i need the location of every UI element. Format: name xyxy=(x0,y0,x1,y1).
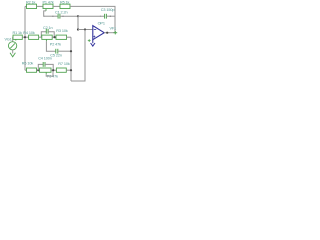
wire R4 to P2 xyxy=(39,36,42,38)
resistor R4 xyxy=(29,35,39,39)
node junction C4 branch left xyxy=(37,69,39,71)
svg-text:OP1: OP1 xyxy=(98,22,105,26)
resistor R1 xyxy=(13,35,22,39)
svg-text:R6 10k: R6 10k xyxy=(22,62,34,66)
wire R3 to right vertical xyxy=(67,36,72,38)
wire P2 wiper down to C5 row xyxy=(46,41,55,51)
wire P1 wiper jog down to C1 row xyxy=(44,11,46,16)
svg-text:R7 10k: R7 10k xyxy=(58,62,70,66)
wire VG1 to R1 xyxy=(12,37,15,42)
node junction C2/P2/R3 xyxy=(54,36,56,38)
wire C4 branch right xyxy=(45,64,53,70)
wire P2 to R3 xyxy=(52,36,56,38)
potentiometer P1 xyxy=(43,4,53,11)
wire to op-amp inverting input xyxy=(78,29,93,31)
resistor R7 xyxy=(56,68,66,72)
wire P3 to R7 xyxy=(51,69,56,71)
potentiometer P2 xyxy=(42,35,52,41)
wire input-node vertical bus xyxy=(24,6,26,70)
wire top row left stub xyxy=(25,5,27,7)
svg-text:R1 1k: R1 1k xyxy=(13,31,23,35)
node junction inverting input xyxy=(77,28,79,30)
wire R6 to P3 xyxy=(37,69,40,71)
wire R7 to right vertical xyxy=(66,69,71,71)
wire C5 to right vertical xyxy=(58,50,71,52)
resistor R6 xyxy=(27,68,37,72)
resistor R2 xyxy=(27,4,37,8)
wire C2 branch left xyxy=(41,32,46,38)
svg-text:C3 150p: C3 150p xyxy=(101,8,115,12)
op-amp OP1 xyxy=(88,26,104,42)
capacitor C3 xyxy=(105,14,107,19)
wire C1 row left xyxy=(44,15,58,17)
ground under VG1 xyxy=(10,53,15,57)
wire inverting input vertical xyxy=(77,16,79,29)
node junction C5/vertical xyxy=(70,50,72,52)
resistor R5 xyxy=(60,4,70,8)
node junction P3/C4/R7 xyxy=(52,69,54,71)
voltage pin VF1 xyxy=(113,31,117,34)
svg-text:VG1: VG1 xyxy=(5,37,12,41)
wire bottom row left stub xyxy=(25,69,27,71)
svg-text:R3 10k: R3 10k xyxy=(56,29,68,33)
node junction C1/C3/inv xyxy=(77,15,79,17)
wire C3 to output vertical xyxy=(106,15,115,17)
wire right collector vertical xyxy=(70,37,72,81)
svg-text:VF1: VF1 xyxy=(110,27,117,31)
wire op-amp output xyxy=(104,32,115,34)
potentiometer P3 xyxy=(40,68,52,74)
wire C1 to inverting node xyxy=(60,15,78,17)
wire VG1 to ground xyxy=(12,50,14,54)
ground at op-amp non-inverting input xyxy=(91,40,95,47)
node C1 terminal dots xyxy=(52,16,53,17)
node junction output xyxy=(106,32,108,34)
capacitor C4 xyxy=(43,62,45,67)
capacitor C2 xyxy=(46,29,48,34)
wire C3 row xyxy=(78,15,105,17)
wire R2 to P1 xyxy=(37,5,44,7)
wire R5 to output corner xyxy=(70,6,115,32)
node junction input bus / mid row xyxy=(24,36,26,38)
svg-text:C4 100n: C4 100n xyxy=(38,57,52,61)
wire C4 branch left xyxy=(38,64,43,70)
node junction feedback return xyxy=(84,28,86,30)
svg-text:C5 22n: C5 22n xyxy=(50,53,62,57)
background xyxy=(0,0,120,91)
node C3 terminal dots xyxy=(100,16,101,17)
svg-text:C1 2.2n: C1 2.2n xyxy=(55,11,67,15)
svg-text:R4 10k: R4 10k xyxy=(23,31,35,35)
svg-text:P2 47k: P2 47k xyxy=(50,42,61,46)
source VG1 xyxy=(8,38,17,50)
wire P3 wiper return xyxy=(46,71,53,77)
wire feedback return U xyxy=(71,30,85,82)
resistor R3 xyxy=(56,35,67,39)
capacitor C5 xyxy=(56,49,58,54)
wire C2 branch right xyxy=(48,32,54,38)
wire P1 to R5 xyxy=(53,5,60,7)
wire R1 to R4 xyxy=(22,36,28,38)
node junction R7/vertical xyxy=(70,69,72,71)
capacitor C1 xyxy=(58,14,60,19)
